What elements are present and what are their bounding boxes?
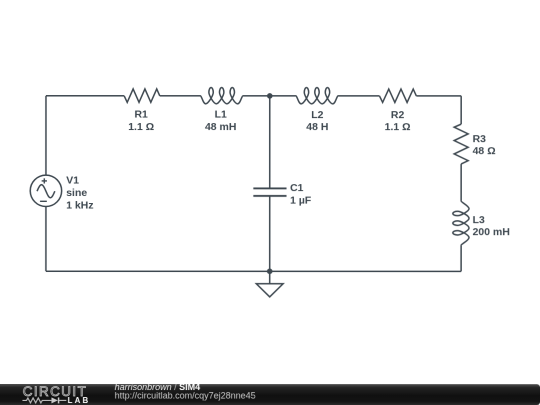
svg-text:http://circuitlab.com/cqy7ej28: http://circuitlab.com/cqy7ej28nne45 (115, 391, 256, 401)
svg-text:200 mH: 200 mH (473, 226, 510, 238)
svg-text:R2: R2 (391, 109, 405, 121)
svg-text:R1: R1 (134, 109, 148, 121)
svg-text:L1: L1 (215, 109, 227, 121)
svg-text:V1: V1 (66, 175, 79, 187)
svg-text:48 Ω: 48 Ω (473, 145, 496, 157)
svg-text:1.1 Ω: 1.1 Ω (385, 121, 411, 133)
svg-text:1 µF: 1 µF (290, 195, 312, 207)
svg-text:L3: L3 (473, 214, 485, 226)
svg-text:1 kHz: 1 kHz (66, 199, 93, 211)
svg-text:sine: sine (66, 187, 87, 199)
svg-text:48 mH: 48 mH (205, 121, 237, 133)
svg-text:R3: R3 (473, 133, 487, 145)
svg-text:1.1 Ω: 1.1 Ω (128, 121, 154, 133)
svg-text:L2: L2 (311, 109, 323, 121)
svg-text:C1: C1 (290, 182, 304, 194)
svg-text:48 H: 48 H (306, 121, 328, 133)
svg-text:LAB: LAB (68, 396, 91, 405)
